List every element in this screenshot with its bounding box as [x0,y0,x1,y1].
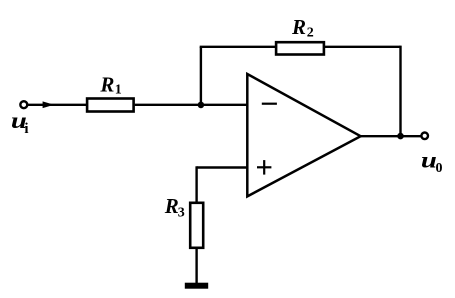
svg-text:2: 2 [307,25,314,40]
svg-text:0: 0 [436,161,443,176]
wire: R3 to ground [195,248,197,284]
svg-text:i: i [24,121,28,137]
svg-text:1: 1 [115,82,122,97]
signal direction arrow [43,101,54,108]
wire: junction up to feedback line [200,47,202,105]
ground [185,283,208,289]
label ui [11,108,29,137]
label R1 [99,72,121,97]
resistor R3 [190,203,203,248]
output terminal uo [421,133,428,140]
label uo [421,147,443,176]
node: inverting input junction [198,102,205,109]
op-amp inverting input marker (minus) [262,103,277,105]
svg-text:R: R [291,15,306,39]
wire: down to R3 [195,166,197,202]
svg-text:3: 3 [178,205,185,220]
wire: op-amp output to output terminal [361,135,422,137]
wire: input terminal to R1 [27,104,87,106]
node: output junction [397,133,404,140]
svg-text:R: R [99,72,114,96]
op-amp non-inverting input marker (plus) [257,166,271,168]
resistor R1 [87,99,134,112]
op-amp U1 [247,74,360,196]
input terminal ui [20,101,27,108]
resistor R2 [276,42,324,54]
wire: R2 to output branch [324,46,401,48]
wire: feedback line to R2 [200,46,277,48]
wire: feedback branch down to output node [399,46,401,137]
label R3 [164,194,185,220]
wire: R1 to inverting input of op-amp [135,104,248,106]
svg-text:R: R [164,194,179,218]
wire: non-inverting input [197,166,248,168]
label R2 [291,15,314,41]
